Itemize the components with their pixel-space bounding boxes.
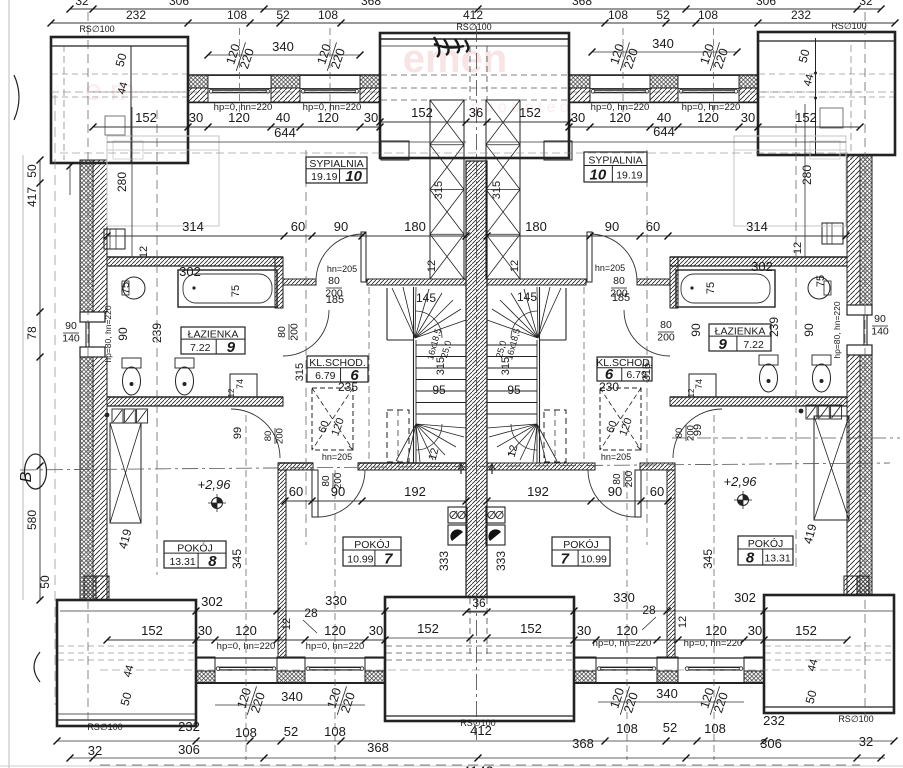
svg-text:315: 315	[433, 181, 445, 199]
washbasin circle right	[808, 277, 830, 299]
bed right	[734, 136, 846, 226]
room label LAZIENKA right	[709, 324, 771, 351]
svg-text:60: 60	[646, 219, 660, 234]
svg-text:180: 180	[525, 219, 547, 234]
svg-text:302: 302	[201, 594, 223, 609]
svg-text:330: 330	[613, 590, 635, 605]
radiator left	[104, 229, 125, 249]
pokoj separating wall left	[278, 463, 313, 470]
svg-text:7.22: 7.22	[190, 342, 211, 354]
svg-text:50: 50	[25, 164, 39, 178]
page edge line	[8, 0, 10, 768]
window W4 top	[680, 89, 737, 91]
80/200 pokoj doors	[321, 472, 344, 489]
svg-text:60: 60	[291, 219, 305, 234]
svg-text:90: 90	[116, 327, 130, 341]
top-left terrace block	[51, 37, 188, 163]
window W2 top	[302, 89, 358, 91]
left margin dims	[69, 163, 71, 195]
svg-text:108: 108	[235, 725, 257, 740]
dim row windows top	[93, 126, 380, 128]
kitchenette hob right	[486, 507, 505, 523]
svg-text:hn=205: hn=205	[322, 452, 352, 462]
svg-text:hp=0, hn=220: hp=0, hn=220	[684, 638, 743, 649]
svg-text:152: 152	[141, 623, 163, 638]
svg-text:80: 80	[660, 319, 672, 331]
svg-text:80: 80	[674, 428, 685, 439]
svg-text:SYPIALNIA: SYPIALNIA	[588, 154, 642, 166]
svg-text:108: 108	[227, 8, 247, 22]
svg-text:12: 12	[227, 388, 236, 397]
svg-text:302: 302	[179, 264, 201, 279]
vanity cabinet right	[689, 374, 716, 397]
bottom exterior wall with piers	[196, 657, 215, 671]
svg-text:108: 108	[698, 8, 718, 22]
svg-text:232: 232	[763, 713, 785, 728]
svg-text:7: 7	[561, 551, 570, 568]
window W2 bottom	[307, 666, 363, 668]
svg-text:306: 306	[178, 742, 200, 757]
skylight box left	[312, 388, 353, 450]
dim row bedroom right	[487, 235, 846, 237]
dim 644	[107, 141, 466, 143]
svg-text:B: B	[18, 471, 35, 482]
svg-text:hp=80, hn=220: hp=80, hn=220	[103, 305, 113, 362]
svg-text:30: 30	[198, 623, 212, 638]
svg-text:340: 340	[281, 689, 303, 704]
svg-text:hp=0, hn=220: hp=0, hn=220	[591, 102, 650, 113]
central chimney wall	[466, 161, 487, 597]
svg-text:314: 314	[746, 219, 768, 234]
svg-text:80: 80	[328, 275, 340, 287]
svg-text:280: 280	[115, 172, 129, 192]
svg-text:108: 108	[616, 721, 638, 736]
pokoj door right	[635, 470, 641, 517]
window W4 bottom	[686, 666, 742, 668]
room label POKOJ7 left	[343, 537, 401, 566]
bed left	[107, 136, 219, 226]
kitchenette sink left	[448, 525, 467, 545]
dim row 302 330	[60, 610, 893, 612]
dim row windows bottom left	[107, 639, 385, 641]
toilet left	[122, 358, 141, 368]
dim row 232 bottom	[57, 740, 894, 742]
bathtub left	[178, 270, 277, 307]
left exterior wall	[80, 160, 93, 312]
svg-text:108: 108	[704, 721, 726, 736]
dim row bottom outer	[70, 757, 885, 759]
svg-text:40: 40	[276, 110, 290, 125]
svg-text:333: 333	[494, 551, 508, 571]
svg-text:80: 80	[612, 473, 623, 485]
svg-text:12: 12	[281, 618, 293, 630]
radiator right	[822, 223, 843, 244]
svg-text:232: 232	[178, 719, 200, 734]
svg-text:hp=0, hn=220: hp=0, hn=220	[217, 641, 276, 652]
washbasin circle left	[123, 277, 145, 299]
svg-text:10: 10	[345, 168, 362, 185]
svg-text:RS∅100: RS∅100	[831, 21, 866, 31]
svg-text:302: 302	[734, 590, 756, 605]
svg-text:330: 330	[325, 593, 347, 608]
svg-text:368: 368	[367, 740, 389, 755]
svg-text:52: 52	[276, 8, 290, 22]
svg-text:10.99: 10.99	[347, 554, 373, 566]
appliances right	[806, 405, 817, 419]
bathroom bottom wall right	[670, 397, 847, 406]
svg-text:302: 302	[751, 259, 773, 274]
svg-text:192: 192	[404, 484, 426, 499]
window W3 bottom	[598, 666, 655, 668]
vanity cabinet left	[230, 374, 257, 397]
svg-text:120: 120	[324, 623, 346, 638]
corridor wall left segment	[283, 279, 316, 285]
svg-text:340: 340	[652, 36, 674, 51]
skylight box right	[600, 388, 641, 450]
svg-text:52: 52	[656, 8, 670, 22]
door stub left	[361, 232, 366, 282]
nightstand left	[105, 116, 125, 135]
room label SYPIALNIA left	[306, 157, 367, 183]
flue box right	[544, 141, 572, 160]
svg-text:36: 36	[469, 105, 483, 120]
axis lines horizontal	[20, 463, 890, 470]
section mark B	[25, 454, 47, 489]
staircase left unit	[386, 288, 388, 340]
svg-text:74: 74	[235, 379, 245, 389]
svg-text:30: 30	[364, 110, 378, 125]
svg-text:32: 32	[88, 743, 102, 758]
bathroom top wall right	[670, 257, 847, 266]
svg-text:340: 340	[272, 39, 294, 54]
svg-text:hp=80, hn=220: hp=80, hn=220	[832, 301, 842, 358]
svg-text:340: 340	[656, 686, 678, 701]
appliances left	[112, 409, 123, 423]
svg-text:RS∅100: RS∅100	[838, 714, 873, 724]
svg-text:90: 90	[334, 219, 348, 234]
dim 340 bottom	[215, 704, 365, 706]
door stub right	[587, 232, 592, 282]
bathroom side wall right	[670, 257, 678, 308]
svg-text:140: 140	[871, 326, 889, 338]
dim row 1 top	[51, 22, 895, 24]
window ratio labels bottom	[233, 682, 269, 719]
svg-text:60: 60	[289, 484, 303, 499]
svg-text:315: 315	[435, 357, 447, 375]
svg-text:345: 345	[701, 549, 715, 569]
svg-text:hp=0, hn=220: hp=0, hn=220	[214, 102, 273, 113]
svg-text:75: 75	[120, 282, 132, 294]
svg-text:75: 75	[705, 282, 717, 294]
toilet right	[812, 355, 831, 365]
svg-text:13.31: 13.31	[764, 553, 790, 565]
svg-text:108: 108	[324, 724, 346, 739]
dim row 0 top	[70, 8, 881, 10]
top-right terrace block	[758, 32, 895, 155]
svg-text:32: 32	[75, 0, 89, 8]
tall window left of chimney	[430, 100, 464, 279]
stamp mark	[434, 37, 468, 57]
svg-text:60: 60	[650, 484, 664, 499]
stairwell boundary dashes	[368, 287, 370, 461]
svg-text:9: 9	[718, 336, 727, 353]
bedroom door arc right	[590, 234, 637, 281]
svg-text:hp=0, hn=220: hp=0, hn=220	[303, 102, 362, 113]
window ratio labels top	[222, 38, 258, 75]
svg-text:306: 306	[169, 0, 189, 8]
dim row pokoj left	[285, 500, 466, 502]
corridor wall right segment	[637, 279, 670, 285]
dim row bedroom left	[107, 235, 466, 237]
svg-text:315: 315	[641, 363, 653, 381]
svg-text:306: 306	[760, 736, 782, 751]
80/200 lower	[276, 323, 301, 341]
bathroom bottom wall left	[107, 397, 283, 406]
top-centre balcony block	[380, 33, 569, 158]
svg-text:RS∅100: RS∅100	[87, 722, 122, 732]
bidet left	[175, 358, 194, 368]
svg-text:368: 368	[572, 0, 592, 8]
svg-text:10: 10	[590, 167, 607, 184]
svg-text:12: 12	[677, 616, 689, 628]
bottom-left terrace block	[57, 600, 196, 726]
svg-text:30: 30	[571, 110, 585, 125]
svg-text:9: 9	[227, 339, 236, 356]
svg-text:30: 30	[577, 623, 591, 638]
svg-text:580: 580	[25, 510, 39, 530]
svg-text:120: 120	[235, 623, 257, 638]
kitchenette sink right	[486, 525, 505, 545]
svg-text:hn=205: hn=205	[327, 264, 357, 274]
svg-text:emen: emen	[403, 37, 508, 81]
room label POKOJ7 right	[552, 537, 610, 566]
bottom-right terrace block	[764, 595, 894, 713]
svg-text:6.79: 6.79	[315, 370, 336, 382]
kitchenette hob left	[448, 507, 467, 523]
svg-text:140: 140	[62, 333, 80, 345]
svg-text:239: 239	[150, 323, 164, 343]
svg-text:80: 80	[263, 431, 274, 442]
svg-text:120: 120	[705, 623, 727, 638]
section arc top	[14, 75, 19, 120]
svg-text:+2,96: +2,96	[724, 474, 758, 489]
svg-text:99: 99	[232, 427, 244, 439]
svg-text:90: 90	[802, 323, 816, 337]
svg-text:152: 152	[519, 105, 541, 120]
room label POKOJ8 right	[738, 536, 793, 565]
svg-text:152: 152	[411, 105, 433, 120]
room label KLSCHOD right	[597, 357, 652, 381]
svg-text:200: 200	[275, 428, 286, 444]
room label LAZIENKA left	[181, 327, 245, 354]
svg-text:80: 80	[321, 475, 332, 487]
svg-text:200: 200	[624, 470, 635, 487]
svg-text:108: 108	[608, 8, 628, 22]
bidet right	[759, 355, 778, 365]
svg-text:50: 50	[38, 575, 52, 589]
svg-text:280: 280	[800, 165, 814, 185]
room label SYPIALNIA right	[584, 152, 647, 182]
svg-text:95: 95	[507, 383, 521, 397]
svg-text:412: 412	[463, 8, 483, 22]
wardrobe right	[814, 416, 849, 520]
pokoj7/8 wall left	[278, 470, 286, 658]
svg-text:hn=205: hn=205	[601, 452, 631, 462]
svg-text:12: 12	[426, 260, 438, 272]
dim 340 top	[208, 54, 360, 56]
bathroom top wall left	[107, 257, 283, 266]
svg-text:185: 185	[612, 292, 630, 304]
svg-text:13.31: 13.31	[169, 556, 195, 568]
svg-text:19.19: 19.19	[616, 169, 642, 181]
svg-text:152: 152	[795, 623, 817, 638]
svg-text:32: 32	[859, 734, 873, 749]
nightstand right	[820, 108, 843, 128]
svg-text:315: 315	[491, 181, 503, 199]
svg-text:12: 12	[687, 388, 696, 397]
svg-text:8: 8	[208, 553, 217, 570]
svg-text:90: 90	[608, 484, 622, 499]
svg-text:200: 200	[333, 472, 344, 489]
svg-text:90: 90	[689, 323, 703, 337]
svg-text:200: 200	[289, 323, 301, 341]
svg-text:RS∅100: RS∅100	[79, 24, 114, 34]
bathroom door arc left	[283, 310, 329, 356]
svg-text:232: 232	[126, 8, 146, 22]
svg-text:345: 345	[230, 549, 244, 569]
svg-text:644: 644	[653, 124, 675, 139]
svg-text:90: 90	[605, 219, 619, 234]
svg-text:+2,96: +2,96	[198, 477, 232, 492]
svg-text:7.22: 7.22	[743, 339, 764, 351]
svg-text:52: 52	[663, 720, 677, 735]
dim row windows top right	[569, 126, 860, 128]
svg-text:28: 28	[642, 603, 656, 617]
bedroom door arc left	[316, 234, 363, 281]
svg-text:230: 230	[599, 380, 619, 394]
svg-text:417: 417	[25, 187, 39, 207]
svg-text:368: 368	[572, 736, 594, 751]
svg-text:315: 315	[500, 357, 512, 375]
svg-text:145: 145	[416, 291, 436, 305]
bathtub right	[676, 270, 775, 307]
wardrobe left	[110, 423, 141, 523]
staircase right unit	[565, 288, 567, 340]
svg-text:hp=0, hn=220: hp=0, hn=220	[593, 638, 652, 649]
window W1 bottom	[217, 666, 275, 668]
svg-text:152: 152	[795, 110, 817, 125]
svg-text:90: 90	[874, 313, 886, 325]
svg-text:RS∅100: RS∅100	[456, 22, 491, 32]
svg-text:412: 412	[470, 723, 492, 738]
svg-text:95: 95	[432, 383, 446, 397]
svg-text:120: 120	[616, 623, 638, 638]
svg-text:40: 40	[657, 110, 671, 125]
svg-text:152: 152	[520, 621, 542, 636]
svg-text:30: 30	[748, 623, 762, 638]
svg-text:108: 108	[318, 8, 338, 22]
svg-text:192: 192	[527, 484, 549, 499]
svg-text:644: 644	[274, 125, 296, 140]
svg-text:145: 145	[517, 290, 537, 304]
svg-text:hn=205: hn=205	[595, 263, 625, 273]
dim row inside balcony	[380, 121, 569, 123]
svg-text:200: 200	[657, 332, 675, 344]
svg-text:180: 180	[404, 219, 426, 234]
svg-text:12: 12	[509, 260, 521, 272]
svg-text:74: 74	[694, 379, 704, 389]
svg-text:12: 12	[138, 246, 150, 258]
svg-text:36: 36	[472, 596, 486, 610]
bathroom side wall left	[275, 257, 283, 308]
svg-text:80: 80	[613, 275, 625, 287]
svg-text:POKÓJ: POKÓJ	[563, 538, 599, 551]
bathroom door arc right	[624, 310, 670, 356]
svg-text:10.99: 10.99	[581, 554, 607, 566]
wc door arc left	[231, 409, 280, 458]
svg-text:152: 152	[417, 621, 439, 636]
svg-text:8: 8	[746, 550, 755, 567]
svg-text:30: 30	[741, 110, 755, 125]
top exterior wall with piers	[188, 75, 208, 88]
svg-text:200: 200	[686, 425, 697, 441]
room label POKOJ8 left	[164, 541, 226, 568]
svg-text:314: 314	[182, 219, 204, 234]
svg-text:28: 28	[304, 606, 318, 620]
tall window right of chimney	[486, 100, 520, 279]
svg-text:239: 239	[767, 317, 781, 337]
svg-text:75: 75	[230, 285, 242, 297]
room label KLSCHOD left	[307, 356, 368, 382]
right wall window	[847, 305, 872, 315]
svg-text:12: 12	[792, 242, 804, 254]
svg-text:185: 185	[326, 294, 344, 306]
pokoj door left	[312, 470, 318, 517]
wc door arc right	[673, 409, 722, 458]
svg-text:306: 306	[756, 0, 776, 8]
svg-text:315: 315	[294, 363, 306, 381]
svg-text:POKÓJ: POKÓJ	[354, 538, 390, 551]
svg-text:32: 32	[859, 0, 873, 8]
svg-text:30: 30	[189, 110, 203, 125]
svg-text:7: 7	[384, 551, 393, 568]
svg-text:52: 52	[284, 724, 298, 739]
svg-text:333: 333	[437, 551, 451, 571]
svg-text:368: 368	[361, 0, 381, 8]
left wall window	[80, 312, 105, 322]
svg-text:hp=0, hn=220: hp=0, hn=220	[682, 102, 741, 113]
bottom-centre balcony block	[385, 597, 574, 721]
svg-text:80: 80	[276, 326, 288, 338]
svg-text:hp=0, hn=220: hp=0, hn=220	[306, 641, 365, 652]
dim row windows bottom right	[574, 639, 847, 641]
corridor wall right segment2	[487, 279, 586, 285]
window W1 top	[210, 89, 269, 91]
svg-text:30: 30	[369, 623, 383, 638]
svg-text:235: 235	[338, 380, 358, 394]
right exterior wall	[847, 155, 860, 305]
corridor wall left segment2	[367, 279, 466, 285]
pokoj separating wall right	[640, 463, 675, 470]
pokoj7/8 wall right	[667, 470, 675, 658]
section arc bottom	[34, 652, 40, 682]
svg-text:78: 78	[25, 326, 39, 340]
svg-text:19.19: 19.19	[311, 171, 337, 183]
svg-text:90: 90	[65, 320, 77, 332]
svg-text:4142: 4142	[462, 763, 493, 768]
svg-text:75: 75	[815, 275, 827, 287]
svg-text:POKÓJ: POKÓJ	[748, 537, 784, 550]
